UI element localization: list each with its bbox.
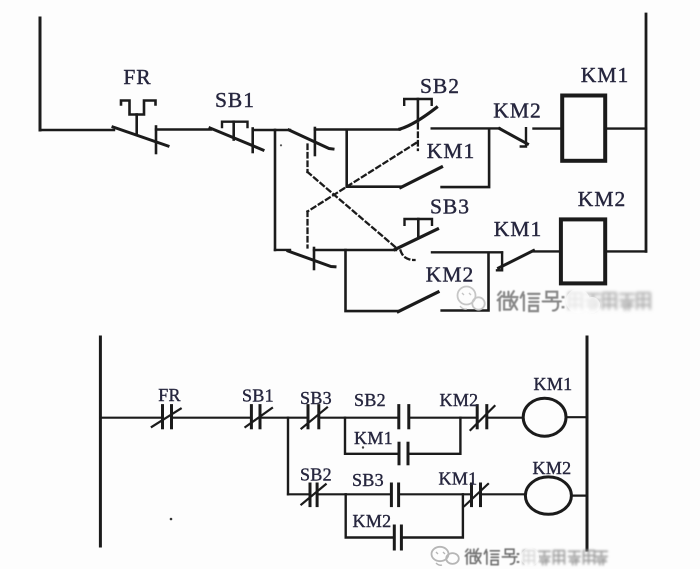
pushbutton SB2 (NO) bbox=[400, 99, 437, 129]
left power rail (ladder) bbox=[99, 337, 102, 546]
svg-text:SB3: SB3 bbox=[300, 388, 332, 408]
pushbutton SB3 (NO) bbox=[395, 219, 438, 250]
contact KM2 (NC interlock, top rung) bbox=[500, 128, 528, 146]
svg-text:KM1: KM1 bbox=[354, 428, 393, 448]
svg-text:FR: FR bbox=[158, 385, 181, 405]
wire: KM1 contact to coil KM2 bbox=[533, 250, 561, 252]
mechanical link dashes (SB2/SB3 interlock X) bbox=[308, 124, 418, 260]
svg-text:FR: FR bbox=[123, 65, 151, 89]
watermark logo (top diagram) bbox=[458, 287, 485, 310]
contact SB2 (ladder rung2 NC) bbox=[301, 484, 325, 506]
svg-text:SB2: SB2 bbox=[300, 465, 332, 485]
svg-text:SB1: SB1 bbox=[215, 88, 255, 112]
contact KM2 (ladder latch NO) bbox=[394, 526, 401, 549]
watermark text 微信号: (ladder diagram) bbox=[465, 549, 518, 565]
wire: KM1 latch branch left/bottom bbox=[347, 130, 401, 187]
contact KM1 (ladder rung2 NC) bbox=[465, 484, 489, 506]
wire: KM2 latch branch (ladder rung2) bbox=[346, 494, 395, 537]
contact SB1 (ladder NC) bbox=[245, 406, 272, 428]
svg-text:KM1: KM1 bbox=[534, 374, 573, 394]
wire: latch branch right (ladder rung2) bbox=[401, 494, 463, 537]
wire: SB3 to KM1 contact bbox=[432, 251, 502, 253]
wire: SB2 to KM2 contact bbox=[432, 127, 500, 129]
watermark logo (ladder diagram) bbox=[432, 547, 459, 565]
coil KM1 (ladder) bbox=[523, 398, 566, 436]
wire: KM2 latch branch left/bottom bbox=[346, 250, 399, 311]
wire: left rail to FR bbox=[40, 129, 114, 131]
wire: FR to SB1 bbox=[156, 128, 211, 130]
svg-text:SB1: SB1 bbox=[242, 386, 274, 406]
svg-text:SB3: SB3 bbox=[430, 195, 470, 219]
svg-text:KM1: KM1 bbox=[427, 139, 475, 163]
wire: KM2 latch branch right bbox=[442, 253, 489, 311]
speck near SB1 junction bbox=[280, 144, 282, 146]
coil KM1 bbox=[562, 96, 605, 161]
svg-text:KM2: KM2 bbox=[353, 511, 392, 531]
watermark blurred tail (top diagram) bbox=[569, 293, 650, 310]
pushbutton SB1 (NC) bbox=[210, 122, 263, 152]
right power rail (ladder) bbox=[586, 337, 589, 550]
wire: branch node to bottom rung bbox=[275, 249, 290, 251]
contact KM2 (ladder rung1 NC) bbox=[471, 406, 495, 430]
rung 1 wire segments bbox=[100, 416, 587, 419]
contact KM1 (NC interlock, bottom rung) bbox=[497, 251, 534, 271]
contact SB3-NC (top branch, mechanically linked) bbox=[275, 128, 333, 155]
svg-text:KM1: KM1 bbox=[494, 217, 542, 241]
contact SB3 (ladder rung1 NC) bbox=[302, 406, 328, 429]
coil KM2 bbox=[561, 219, 605, 283]
watermark white overlay blob (ladder diagram) bbox=[521, 548, 539, 566]
svg-text:KM2: KM2 bbox=[533, 458, 572, 478]
svg-text:KM1: KM1 bbox=[439, 469, 478, 489]
svg-text:KM1: KM1 bbox=[581, 63, 629, 87]
wire: coil KM1 to right rail bbox=[605, 127, 646, 129]
svg-text:SB3: SB3 bbox=[352, 470, 384, 490]
contact FR (ladder NC) bbox=[152, 406, 181, 428]
svg-text:KM2: KM2 bbox=[493, 99, 541, 123]
speck bottom left area bbox=[170, 518, 173, 521]
contact SB3 (ladder rung2 NO) bbox=[391, 484, 398, 506]
svg-text:SB2: SB2 bbox=[420, 74, 460, 98]
svg-text:SB2: SB2 bbox=[354, 390, 386, 410]
wire: KM1 latch branch right bbox=[442, 129, 490, 187]
svg-text:KM2: KM2 bbox=[578, 187, 626, 211]
wire: KM1 latch branch (ladder rung1) bbox=[345, 418, 399, 454]
wire: to SB3 bbox=[314, 249, 396, 251]
rung 2 wire segments bbox=[288, 494, 587, 495]
contact SB2-NC (bottom branch, mechanically linked) bbox=[288, 248, 335, 269]
svg-text:KM2: KM2 bbox=[440, 390, 479, 410]
coil KM2 (ladder) bbox=[525, 477, 571, 514]
node: rung1-rung2 branch vertical bbox=[287, 418, 289, 495]
watermark blurred tail (ladder diagram) bbox=[524, 551, 608, 565]
watermark white overlay blob (top diagram) bbox=[566, 289, 600, 313]
speck near ladder KM1 label bbox=[362, 446, 364, 448]
wire: SB1 to branch node bbox=[253, 129, 275, 131]
svg-text:KM2: KM2 bbox=[426, 263, 474, 287]
contact KM2 (NO latch) bbox=[398, 292, 438, 312]
thermal relay FR (NC contact) bbox=[113, 101, 168, 154]
contact SB2 (ladder rung1 NO) bbox=[399, 406, 409, 428]
left power rail (top diagram) bbox=[39, 18, 42, 130]
wire: KM2 contact to coil KM1 bbox=[534, 127, 563, 129]
watermark text 微信号: (top diagram) bbox=[498, 291, 563, 311]
wire: to SB2 bbox=[315, 128, 400, 130]
contact KM1 (ladder latch NO) bbox=[399, 443, 408, 464]
wire: coil KM2 to right rail bbox=[605, 250, 646, 252]
node: branch junction vertical bbox=[274, 130, 277, 250]
right power rail (top diagram) bbox=[645, 14, 648, 251]
contact KM1 (NO latch) bbox=[401, 167, 442, 188]
wire: latch branch right (ladder rung1) bbox=[408, 418, 460, 454]
